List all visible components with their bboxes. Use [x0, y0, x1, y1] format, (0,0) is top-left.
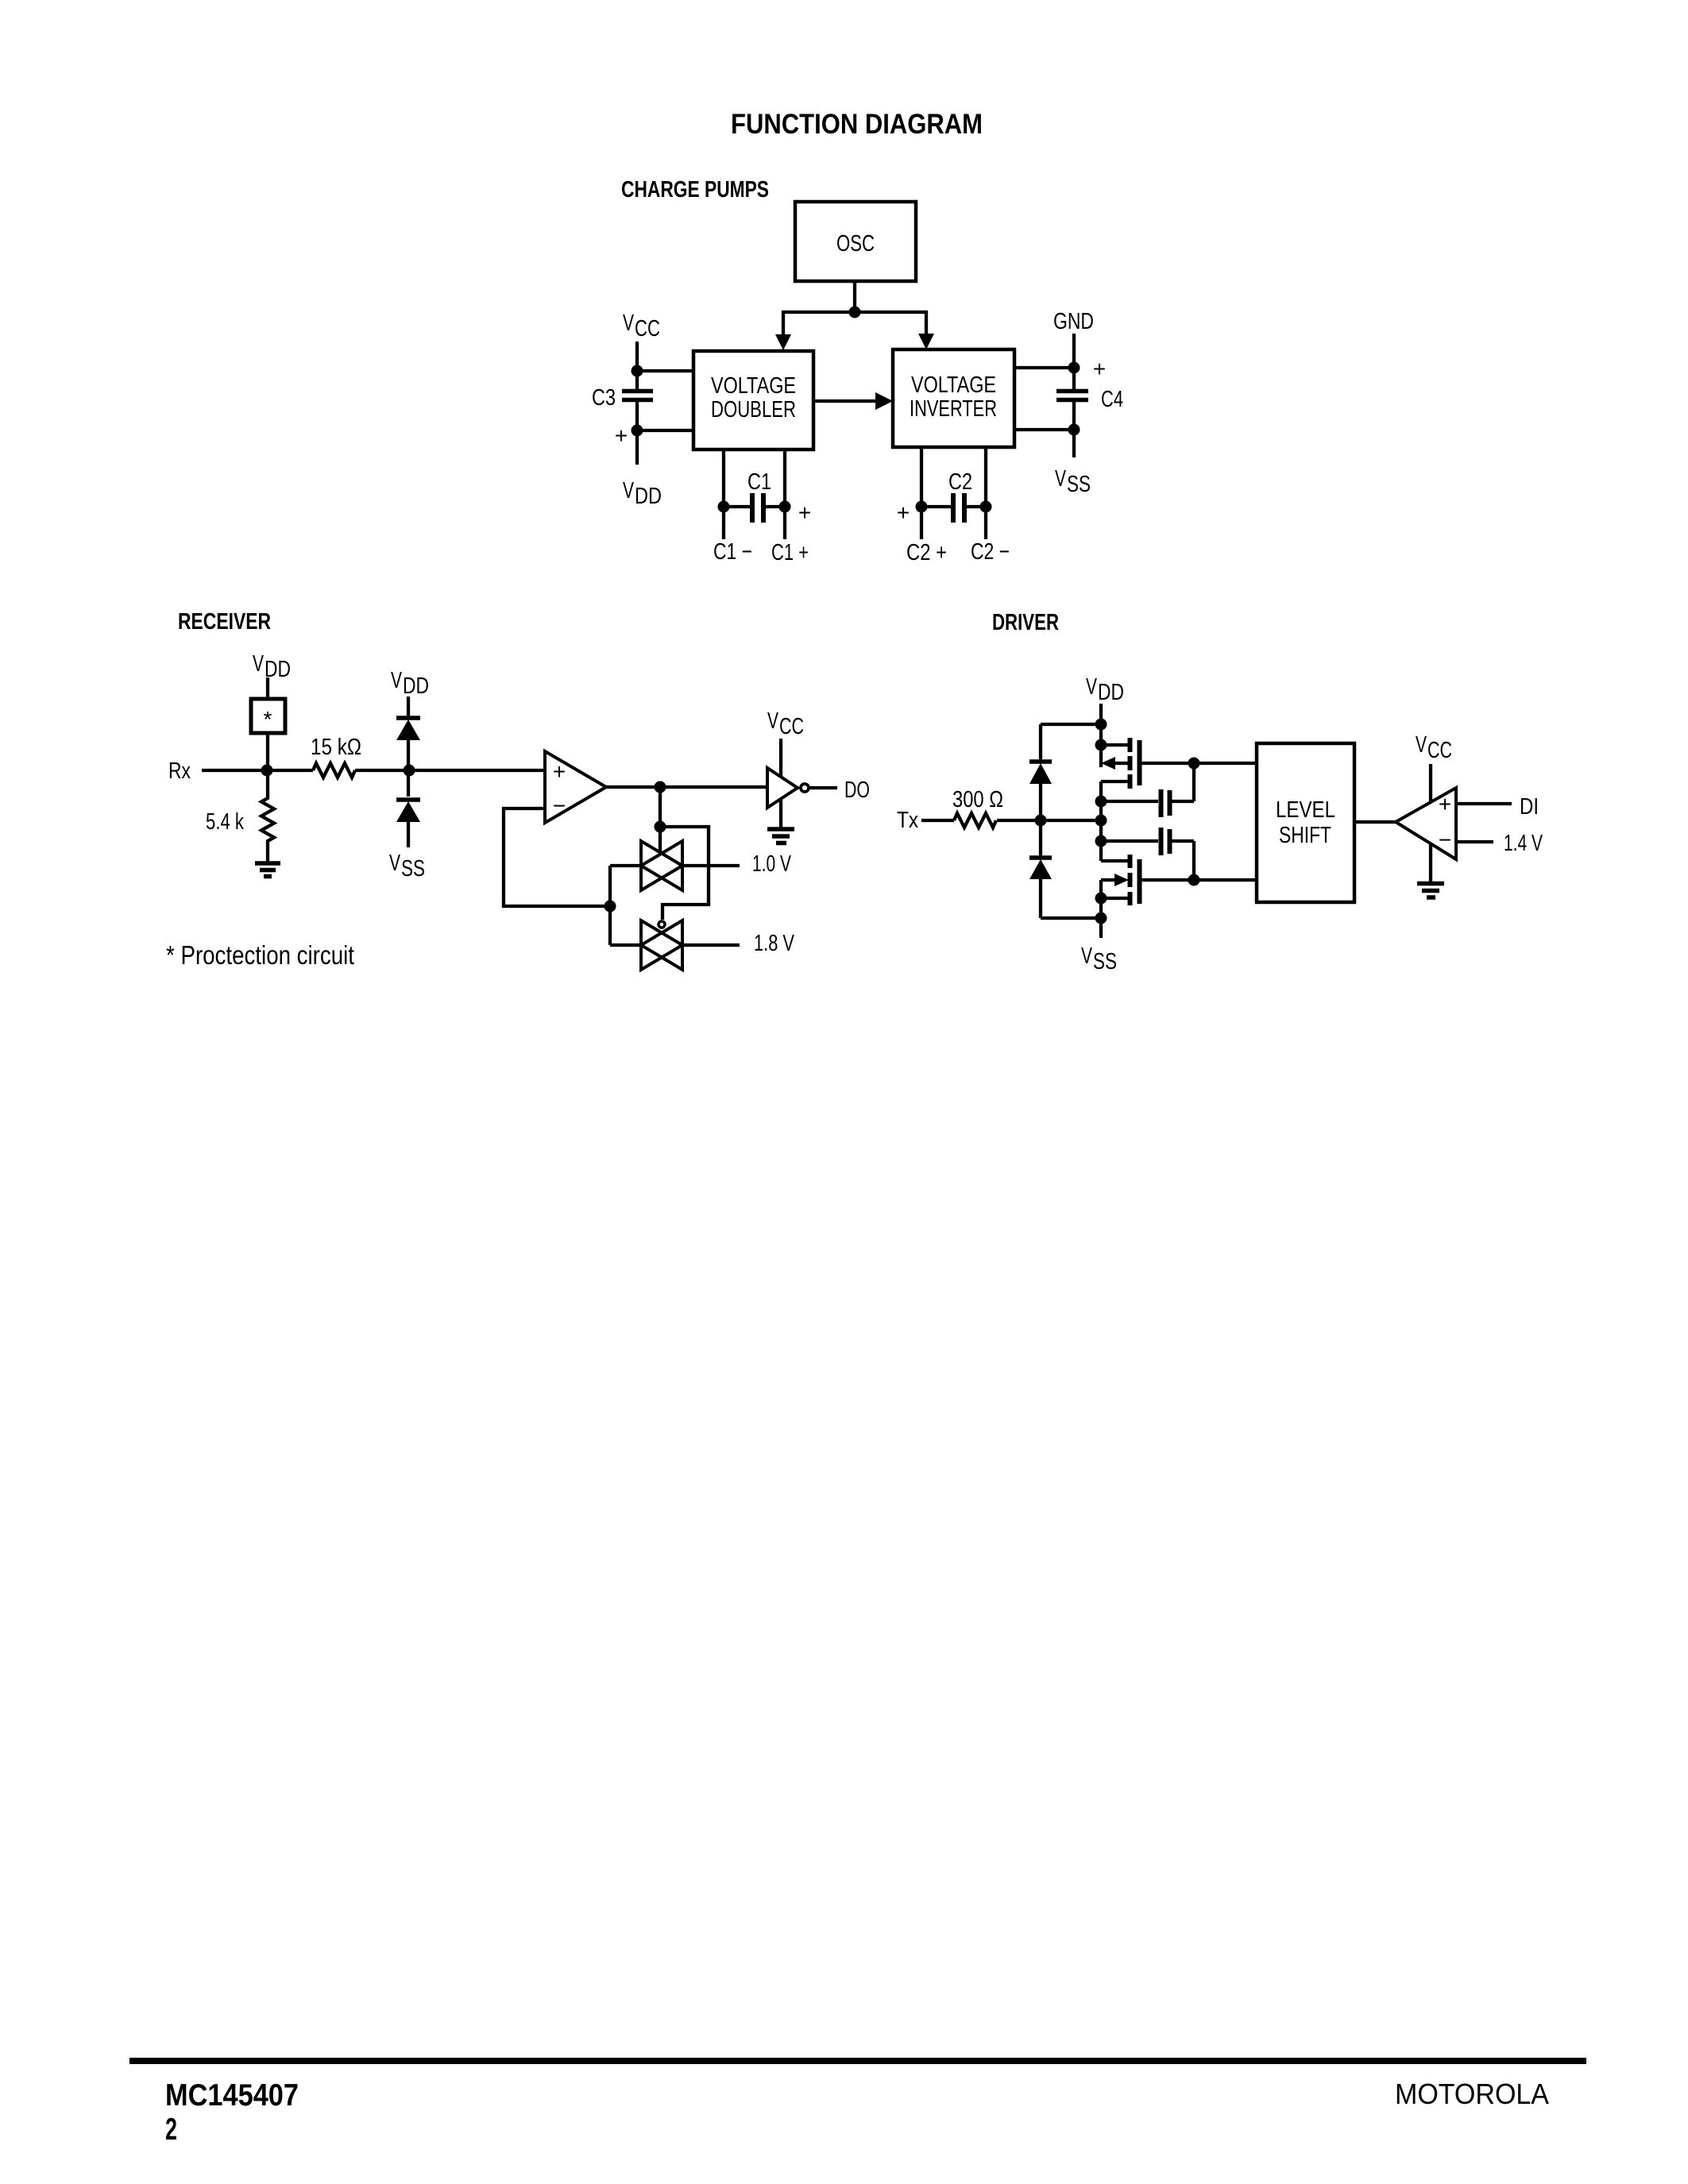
svg-text:1.4 V: 1.4 V: [1504, 831, 1543, 856]
wire protection box to Rx node: [266, 733, 269, 770]
svg-text:Tx: Tx: [897, 808, 918, 833]
ground (driver comparator): [1429, 843, 1432, 882]
wire OSC distribution tee: [783, 312, 926, 334]
wire output column mid: [1099, 781, 1103, 861]
svg-text:Rx: Rx: [168, 758, 191, 784]
svg-text:+: +: [615, 423, 628, 448]
svg-text:1.8 V: 1.8 V: [754, 931, 794, 956]
node dot PMOS drain: [1095, 796, 1107, 808]
node dot C2-: [980, 501, 992, 513]
wire to doubler top-left: [637, 369, 693, 372]
node dot PMOS gate: [1188, 758, 1200, 770]
wire control to inverted gate: [660, 827, 709, 920]
svg-text:CC: CC: [779, 714, 804, 739]
svg-text:V: V: [391, 668, 402, 693]
svg-text:FUNCTION DIAGRAM: FUNCTION DIAGRAM: [731, 109, 983, 140]
resistor 300 Ohm: [954, 813, 996, 828]
svg-text:−: −: [553, 793, 566, 818]
diode clamp lower: [407, 770, 410, 797]
wire doubler leg C1+: [783, 450, 786, 539]
node dot GND/C4: [1068, 362, 1080, 374]
svg-text:DD: DD: [403, 673, 429, 699]
wire output column low: [1099, 880, 1103, 938]
node dot diode clamp: [404, 765, 415, 777]
svg-text:C3: C3: [592, 385, 616, 411]
svg-text:SHIFT: SHIFT: [1279, 823, 1331, 848]
svg-text:+: +: [553, 759, 566, 784]
capacitor C4: [1056, 389, 1088, 394]
svg-text:DO: DO: [844, 778, 870, 803]
svg-text:RECEIVER: RECEIVER: [178, 609, 271, 635]
wire inverter top-right to GND: [1014, 366, 1074, 369]
wire VCC stub: [1429, 764, 1432, 802]
wire VDD stub: [1099, 704, 1103, 767]
wire inverter bottom-right to VSS: [1014, 428, 1074, 431]
svg-text:INVERTER: INVERTER: [910, 396, 997, 422]
svg-text:1.0 V: 1.0 V: [752, 851, 791, 877]
node dot VSS rail: [1095, 913, 1107, 924]
wire OSC bottom stub: [853, 281, 856, 312]
transistor Q1 PMOS: [1101, 743, 1128, 747]
node dot PMOS source: [1095, 739, 1107, 751]
wire feedback from minus input: [504, 808, 610, 906]
resistor 15 kOhm: [313, 763, 355, 778]
svg-text:OSC: OSC: [836, 231, 875, 257]
transistor Q2 NMOS: [1101, 859, 1128, 862]
node dot diode branch: [1035, 815, 1047, 827]
svg-text:* Proctection circuit: * Proctection circuit: [166, 940, 354, 970]
svg-text:+: +: [1439, 792, 1451, 816]
svg-text:+: +: [1093, 357, 1106, 381]
transmission gate 1.0V: [641, 841, 682, 890]
wire gate1 left terminal: [610, 864, 641, 867]
svg-text:V: V: [767, 708, 778, 734]
wire inverter leg C2-: [984, 447, 987, 539]
node dot VDD rail: [1095, 719, 1107, 731]
block VOLTAGE DOUBLER: [693, 351, 813, 450]
wire VCC to buffer: [779, 739, 782, 778]
inverter buffer DO: [767, 768, 798, 808]
node dot output: [655, 781, 666, 793]
diode to VSS: [1029, 855, 1052, 860]
svg-text:VOLTAGE: VOLTAGE: [911, 372, 996, 398]
wire 1.4V input: [1456, 840, 1493, 843]
svg-text:C1 +: C1 +: [771, 540, 809, 565]
svg-text:15 kΩ: 15 kΩ: [311, 735, 361, 760]
node junction dot under OSC: [849, 307, 861, 318]
wire inverter leg C2+: [920, 447, 923, 539]
svg-text:+: +: [798, 500, 811, 525]
wire resistor to output node: [997, 819, 1101, 822]
oscillator block OSC: [795, 202, 916, 281]
wire VDD to diode: [407, 696, 410, 716]
svg-text:2: 2: [165, 2113, 177, 2147]
wire NMOS gate: [1141, 878, 1257, 882]
svg-text:300 Ω: 300 Ω: [952, 787, 1003, 812]
wire diode branch bottom: [1041, 916, 1101, 920]
wire doubler to inverter with arrow: [813, 399, 875, 403]
svg-text:V: V: [1081, 943, 1092, 969]
wire Tx input: [921, 819, 954, 822]
svg-text:VOLTAGE: VOLTAGE: [711, 373, 796, 399]
svg-text:CC: CC: [1427, 738, 1452, 763]
svg-text:DD: DD: [635, 484, 662, 509]
svg-text:C2: C2: [948, 469, 972, 495]
svg-text:V: V: [1416, 732, 1427, 758]
wire gate1 to 1.0 V: [682, 864, 740, 867]
svg-text:C1: C1: [747, 469, 771, 495]
wire gate2 to 1.8 V: [682, 943, 740, 947]
svg-text:+: +: [897, 500, 910, 525]
wire VCC stub: [635, 341, 639, 389]
node dot output column: [1095, 815, 1107, 827]
node dot feedback: [605, 901, 616, 913]
capacitor C3: [622, 389, 653, 394]
node dot VSS/C4: [1068, 424, 1080, 436]
wire Rx input: [202, 769, 313, 772]
wire PMOS gate: [1141, 762, 1257, 765]
svg-text:−: −: [1439, 828, 1451, 852]
comparator U1 (receiver): [545, 751, 606, 823]
wire gate input riser: [608, 866, 612, 945]
wire level shift to comparator: [1354, 820, 1396, 824]
node dot C2+: [916, 501, 928, 513]
capacitor comp upper: [1101, 800, 1158, 803]
svg-text:V: V: [1055, 466, 1066, 492]
diode to VDD: [1039, 724, 1042, 760]
svg-text:V: V: [1086, 674, 1097, 700]
svg-text:*: *: [264, 707, 272, 731]
resistor 5.4 k: [261, 770, 274, 862]
node dot NMOS gate: [1188, 874, 1200, 886]
node dot VDD/C3: [632, 425, 643, 437]
block LEVEL SHIFT: [1257, 743, 1354, 902]
wire resistor to comparator: [355, 769, 545, 772]
svg-text:C2 +: C2 +: [906, 540, 947, 565]
svg-text:V: V: [623, 478, 634, 504]
wire comparator output: [606, 785, 767, 789]
node dot VCC/C3: [632, 365, 643, 377]
wire GND stub: [1072, 334, 1076, 389]
wire DI input: [1456, 802, 1512, 805]
ground (receiver divider): [255, 861, 280, 866]
node dot C1-: [718, 501, 730, 513]
svg-text:DRIVER: DRIVER: [992, 610, 1059, 635]
svg-text:GND: GND: [1053, 309, 1094, 334]
svg-text:C4: C4: [1101, 387, 1123, 412]
svg-text:V: V: [623, 311, 634, 336]
node dot NMOS source: [1095, 893, 1107, 905]
svg-text:C2 −: C2 −: [971, 539, 1010, 565]
bubble DO inverter: [801, 784, 809, 792]
capacitor comp lower: [1101, 839, 1158, 843]
block VOLTAGE INVERTER: [893, 349, 1014, 447]
svg-text:MC145407: MC145407: [165, 2078, 299, 2113]
capacitor C2: [921, 505, 951, 508]
arrow into VOLTAGE DOUBLER: [775, 334, 791, 350]
bubble on gate 2 control: [659, 921, 665, 928]
wire gate2 left terminal: [610, 943, 641, 947]
node dot gate control: [655, 821, 666, 833]
svg-text:SS: SS: [1093, 949, 1117, 974]
svg-text:LEVEL: LEVEL: [1276, 797, 1335, 823]
protection circuit box *: [251, 699, 285, 733]
svg-text:V: V: [253, 651, 264, 677]
svg-text:SS: SS: [1067, 472, 1091, 497]
transmission gate 1.8V: [641, 920, 682, 970]
svg-text:SS: SS: [401, 856, 425, 882]
arrow into VOLTAGE INVERTER: [918, 334, 934, 349]
comparator U2 (driver): [1396, 788, 1456, 859]
wire DO output: [809, 786, 837, 789]
wire diode branch top: [1041, 723, 1101, 726]
node dot cap2 tap: [1095, 835, 1107, 847]
svg-text:CHARGE PUMPS: CHARGE PUMPS: [621, 177, 769, 203]
wire doubler leg C1-: [722, 450, 725, 539]
svg-text:DI: DI: [1520, 794, 1539, 820]
svg-text:V: V: [389, 851, 400, 876]
node dot Rx: [261, 765, 273, 777]
svg-text:MOTOROLA: MOTOROLA: [1395, 2078, 1549, 2110]
diode clamp upper: [396, 716, 420, 720]
svg-text:C1 −: C1 −: [713, 539, 752, 565]
node dot C1+: [779, 501, 791, 513]
svg-text:5.4 k: 5.4 k: [206, 809, 244, 835]
svg-text:CC: CC: [635, 316, 660, 341]
wire VDD to protection box: [266, 677, 269, 699]
wire output to gate control: [659, 787, 662, 854]
ground (DO buffer): [779, 798, 782, 828]
capacitor C1: [724, 505, 750, 508]
footer rule: [129, 2058, 1586, 2064]
wire to doubler bottom-left: [637, 429, 693, 432]
svg-text:DD: DD: [1098, 680, 1124, 705]
svg-text:DOUBLER: DOUBLER: [711, 397, 796, 423]
